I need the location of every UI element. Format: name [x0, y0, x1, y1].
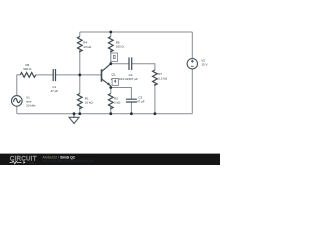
- wire V2 branch bottom: [191, 69, 193, 114]
- wire top rail: [80, 31, 193, 33]
- wire emitter node to R2 top: [110, 88, 112, 94]
- svg-text:47 pF: 47 pF: [50, 89, 58, 93]
- wire R1 bottom lead: [79, 108, 81, 114]
- transistor Q1: [102, 64, 111, 86]
- svg-text:1 kΩ: 1 kΩ: [114, 100, 121, 104]
- svg-text:Q1: Q1: [112, 73, 116, 77]
- capacitor C3: [126, 99, 137, 102]
- wire C3 bottom lead: [130, 102, 132, 114]
- wire V1 top lead: [17, 75, 21, 96]
- wire R4 top lead: [79, 32, 81, 37]
- source V1: [11, 96, 22, 107]
- wire C2 to R7 corner: [132, 64, 155, 70]
- svg-text:R7: R7: [158, 72, 162, 76]
- node top rail / R5: [109, 31, 112, 34]
- resistor R1: [77, 94, 82, 109]
- wire C1 to base node to Q1 base: [56, 74, 102, 76]
- wire R2 bottom lead: [110, 108, 112, 114]
- svg-text:LAB: LAB: [26, 161, 35, 165]
- svg-text:47 µF: 47 µF: [137, 100, 145, 104]
- resistor R7: [153, 70, 158, 85]
- annotation box on emitter wire: [112, 79, 118, 86]
- svg-text:2.2 kΩ: 2.2 kΩ: [158, 77, 168, 81]
- resistor R6: [20, 73, 35, 78]
- wire R4 bottom to base node to R1 top: [79, 51, 81, 94]
- svg-text:500 Ω: 500 Ω: [23, 67, 32, 71]
- wire collector node to C2: [111, 63, 129, 65]
- svg-text:10 kHz: 10 kHz: [26, 104, 36, 108]
- capacitor C2: [129, 57, 132, 70]
- wire emitter stub: [110, 86, 112, 88]
- resistor R5: [108, 37, 113, 52]
- watermark bar: [0, 154, 220, 165]
- wire R5 top lead: [110, 32, 112, 37]
- wire V2 branch top: [191, 32, 193, 59]
- node R1 rail: [78, 112, 81, 115]
- CircuitLab logo: [10, 156, 37, 165]
- node R2 rail: [109, 112, 112, 115]
- node ground rail: [73, 112, 76, 115]
- svg-text:100 Ω: 100 Ω: [116, 45, 125, 49]
- node R7 rail: [154, 112, 157, 115]
- svg-text:http://circuitlab.com/c/4eu7lq: http://circuitlab.com/c/4eu7lqh3b2q6/: [43, 159, 95, 163]
- svg-text:10 kΩ: 10 kΩ: [83, 45, 92, 49]
- svg-text:0.22367 µF: 0.22367 µF: [123, 77, 138, 81]
- annotation box on collector wire: [111, 53, 118, 61]
- wire R6 to C1: [36, 74, 53, 76]
- svg-text:15 V: 15 V: [201, 63, 207, 67]
- wire emitter node to C3: [111, 88, 132, 100]
- resistor R2: [108, 94, 113, 109]
- wire bottom rail: [17, 113, 193, 115]
- node base: [78, 74, 81, 77]
- node C3 rail: [130, 112, 133, 115]
- source V2: [187, 59, 197, 69]
- node collector: [109, 62, 112, 65]
- svg-text:10 kΩ: 10 kΩ: [85, 100, 94, 104]
- capacitor C1: [53, 69, 55, 81]
- wire R7 bottom lead: [154, 84, 156, 114]
- node emitter: [109, 86, 112, 89]
- wire V1 bottom lead: [16, 106, 18, 114]
- ground: [69, 114, 79, 124]
- wire R5 bottom through box to collector node: [110, 51, 112, 64]
- resistor R4: [77, 37, 82, 52]
